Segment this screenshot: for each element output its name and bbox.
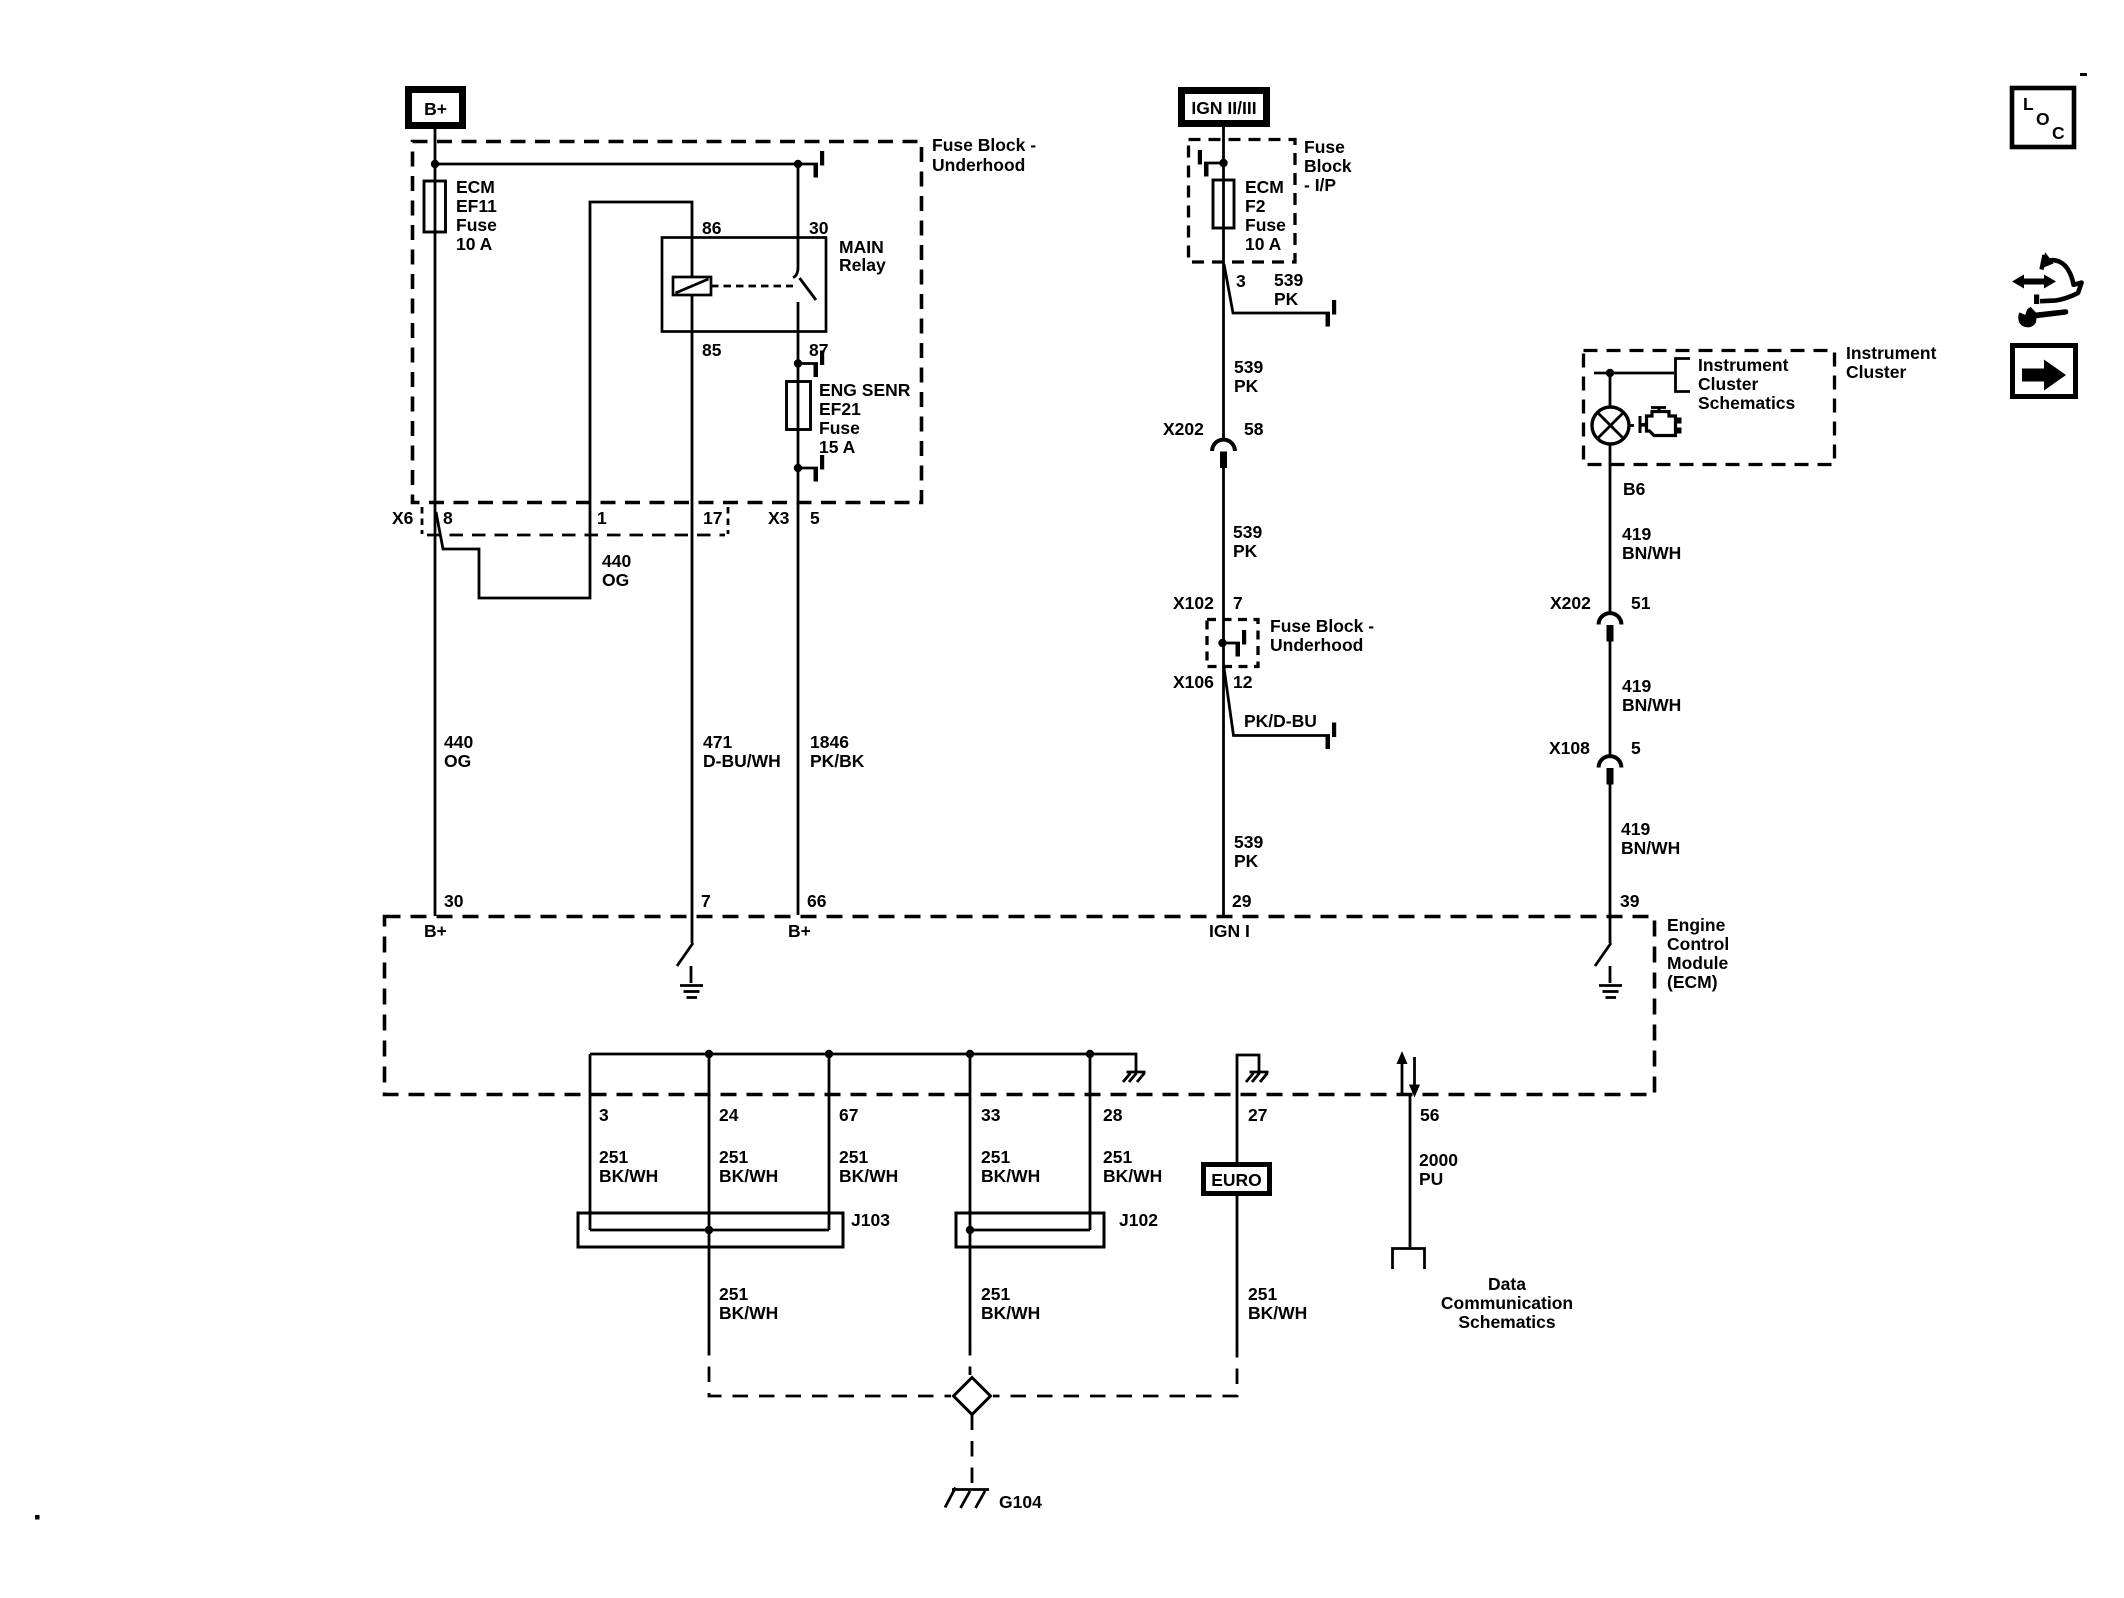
wire 419 BN/WH to X108	[1609, 642, 1612, 757]
svg-text:251: 251	[719, 1284, 748, 1304]
clip at 539 PK branch end	[1326, 300, 1337, 327]
wire label 419 BN/WH (upper)	[1622, 524, 1681, 563]
engine control module ECM dashed box	[385, 917, 1655, 1095]
svg-text:539: 539	[1233, 522, 1262, 542]
dashed ground distribution wire from J103	[709, 1340, 951, 1396]
svg-text:Module: Module	[1667, 953, 1729, 973]
svg-text:BN/WH: BN/WH	[1621, 838, 1680, 858]
svg-text:30: 30	[809, 218, 829, 238]
ECM internal ground bus	[590, 1054, 1136, 1071]
fuse block underhood inline label	[1270, 616, 1374, 655]
wire label 440 OG (lower)	[444, 732, 473, 771]
wire EURO down 251 BK/WH	[1236, 1194, 1239, 1342]
wire label 251 BK/WH below EURO	[1248, 1284, 1307, 1323]
instrument cluster schematics label	[1698, 355, 1796, 413]
relay labels	[702, 218, 886, 360]
svg-text:Cluster: Cluster	[1698, 374, 1758, 394]
wire ECM pin 67 to J103	[828, 1054, 831, 1230]
svg-text:24: 24	[719, 1105, 739, 1125]
splice pack J103	[578, 1213, 843, 1247]
connector X6 / X3 pin labels	[392, 508, 820, 528]
power symbol B+	[409, 90, 463, 126]
svg-text:X108: X108	[1549, 738, 1590, 758]
svg-text:Instrument: Instrument	[1698, 355, 1789, 375]
svg-text:39: 39	[1620, 891, 1640, 911]
svg-text:419: 419	[1622, 676, 1651, 696]
svg-text:1: 1	[597, 508, 607, 528]
svg-text:3: 3	[599, 1105, 609, 1125]
wire label 440 OG (upper)	[602, 551, 631, 590]
svg-text:539: 539	[1234, 832, 1263, 852]
svg-text:87: 87	[809, 340, 828, 360]
svg-text:X6: X6	[392, 508, 414, 528]
svg-text:Fuse Block -: Fuse Block -	[932, 135, 1036, 155]
svg-text:440: 440	[602, 551, 631, 571]
diagnostic harness icon	[2012, 252, 2082, 327]
svg-text:56: 56	[1420, 1105, 1440, 1125]
svg-text:L: L	[2023, 94, 2034, 114]
check engine icon	[1639, 408, 1682, 436]
svg-text:BK/WH: BK/WH	[1103, 1166, 1162, 1186]
svg-text:BK/WH: BK/WH	[839, 1166, 898, 1186]
svg-text:BK/WH: BK/WH	[719, 1303, 778, 1323]
svg-text:BN/WH: BN/WH	[1622, 695, 1681, 715]
svg-text:B+: B+	[424, 99, 447, 119]
svg-text:ENG SENR: ENG SENR	[819, 380, 911, 400]
relay 86 coil wire	[691, 238, 694, 278]
svg-text:PK: PK	[1234, 376, 1259, 396]
wire X6 pin 8 jog to relay coil pin 86 via pin 1	[436, 202, 692, 598]
wire top bus to relay pin 30	[435, 163, 818, 166]
stray mark bottom left	[35, 1515, 40, 1520]
dashed wire diamond to G104	[971, 1415, 974, 1487]
svg-text:ECM: ECM	[1245, 177, 1284, 197]
fuse F2	[1213, 180, 1234, 228]
fuse EF11 label	[456, 177, 497, 254]
connector X202 pin 51 labels	[1550, 593, 1651, 613]
wire label 251 BK/WH below J103	[719, 1284, 778, 1323]
junction dot in inline box	[1218, 639, 1226, 647]
fuse block underhood inline dashed box	[1207, 620, 1258, 667]
connector X102 pin 7 labels	[1173, 593, 1243, 613]
relay coil-contact dashed link	[711, 285, 793, 288]
ECM label	[1667, 915, 1729, 992]
wire relay pin 85 down through X6 pin 17 to ECM pin 7 (471 D-BU/WH)	[691, 295, 694, 943]
internal chassis ground at pin 27	[1246, 1072, 1269, 1082]
svg-text:BK/WH: BK/WH	[981, 1166, 1040, 1186]
fuse block I/P label	[1304, 137, 1352, 195]
svg-text:471: 471	[703, 732, 732, 752]
junction dot above lamp	[1606, 369, 1614, 377]
svg-text:33: 33	[981, 1105, 1001, 1125]
relay switch blade	[800, 278, 817, 300]
power symbol IGN II/III	[1182, 91, 1267, 124]
junction dot below EF21	[794, 464, 802, 472]
svg-text:PK: PK	[1234, 851, 1259, 871]
svg-text:251: 251	[839, 1147, 868, 1167]
wire label 539 PK (above X102)	[1233, 522, 1262, 561]
wire relay pin 87 down through X3 pin 5 to ECM pin 66 (1846 PK/BK)	[797, 302, 800, 915]
svg-text:Fuse: Fuse	[819, 418, 860, 438]
svg-text:Communication: Communication	[1441, 1293, 1573, 1313]
svg-text:Block: Block	[1304, 156, 1352, 176]
svg-text:X202: X202	[1550, 593, 1591, 613]
svg-text:17: 17	[703, 508, 722, 528]
junction dot at B+	[431, 160, 439, 168]
connector X202 pin 58 labels	[1163, 419, 1264, 439]
wire stub and clip at 87	[798, 362, 818, 365]
svg-text:67: 67	[839, 1105, 858, 1125]
clip at PK/D-BU branch end	[1326, 723, 1337, 750]
wire label 419 BN/WH (middle)	[1622, 676, 1681, 715]
in-line connector X202-51	[1599, 613, 1622, 641]
svg-text:IGN I: IGN I	[1209, 921, 1250, 941]
svg-text:5: 5	[1631, 738, 1641, 758]
svg-text:EF21: EF21	[819, 399, 861, 419]
wire through fuse block underhood inline	[1222, 618, 1225, 668]
svg-text:1846: 1846	[810, 732, 849, 752]
svg-text:F2: F2	[1245, 196, 1266, 216]
svg-text:PK: PK	[1233, 541, 1258, 561]
in-line connector X108-5	[1599, 756, 1622, 784]
data communication schematics label	[1441, 1274, 1573, 1332]
svg-text:Data: Data	[1488, 1274, 1526, 1294]
svg-text:J102: J102	[1119, 1210, 1158, 1230]
wire 539 PK to X102	[1222, 468, 1225, 618]
svg-text:419: 419	[1621, 819, 1650, 839]
wire labels 251 BK/WH row	[599, 1147, 1162, 1186]
wire J102 output 251 BK/WH	[969, 1230, 972, 1340]
svg-text:X202: X202	[1163, 419, 1204, 439]
svg-text:66: 66	[807, 891, 827, 911]
indicator lamp MIL	[1592, 407, 1634, 444]
svg-text:58: 58	[1244, 419, 1264, 439]
wire label 1846 PK/BK	[810, 732, 865, 771]
svg-text:- I/P: - I/P	[1304, 175, 1336, 195]
splice pack J102	[956, 1213, 1104, 1247]
wire ECM pin 27 to EURO	[1236, 1096, 1239, 1162]
in-line connector X202-58	[1212, 440, 1235, 468]
ECM internal ground bracket at pin 27	[1237, 1055, 1259, 1096]
svg-text:Fuse: Fuse	[1245, 215, 1286, 235]
fuse F2 label	[1245, 177, 1286, 254]
reference bracket instrument cluster schematics	[1676, 359, 1691, 392]
svg-text:7: 7	[1233, 593, 1243, 613]
wire branch 539 PK off-page	[1224, 264, 1330, 313]
svg-text:539: 539	[1234, 357, 1263, 377]
ECM pin number labels top	[444, 891, 1640, 911]
svg-text:Fuse Block -: Fuse Block -	[1270, 616, 1374, 636]
ECM internal net labels	[424, 921, 1250, 941]
svg-text:5: 5	[810, 508, 820, 528]
dashed ground distribution wire from EURO	[993, 1342, 1237, 1396]
wire label 539 PK (above pin 29)	[1234, 832, 1263, 871]
wire IGN II/III feed down to ECM pin 29 (539 PK)	[1222, 127, 1225, 439]
svg-text:27: 27	[1248, 1105, 1267, 1125]
svg-text:PK/D-BU: PK/D-BU	[1244, 711, 1317, 731]
instrument cluster dashed box	[1584, 351, 1835, 465]
svg-text:BN/WH: BN/WH	[1622, 543, 1681, 563]
svg-text:251: 251	[719, 1147, 748, 1167]
svg-text:OG: OG	[444, 751, 471, 771]
svg-text:85: 85	[702, 340, 722, 360]
svg-text:Fuse: Fuse	[456, 215, 497, 235]
wire stub and clip in inline box	[1223, 642, 1241, 645]
svg-text:251: 251	[599, 1147, 628, 1167]
svg-text:251: 251	[981, 1147, 1010, 1167]
fuse block underhood dashed box	[413, 142, 922, 503]
svg-text:28: 28	[1103, 1105, 1123, 1125]
junction dot at relay 30 branch	[794, 160, 802, 168]
ECM internal data arrows at pin 56	[1397, 1051, 1421, 1098]
svg-text:MAIN: MAIN	[839, 237, 884, 257]
connector X6 boundary marks	[422, 507, 728, 535]
wire relay pin 30 into switch pivot	[793, 164, 798, 278]
svg-text:Control: Control	[1667, 934, 1729, 954]
junction dot at 87	[794, 359, 802, 367]
svg-text:251: 251	[981, 1284, 1010, 1304]
svg-text:C: C	[2052, 123, 2065, 143]
svg-text:X3: X3	[768, 508, 790, 528]
instrument cluster internal wire	[1594, 372, 1674, 375]
svg-text:B+: B+	[424, 921, 447, 941]
wire branch PK/D-BU off-page	[1224, 668, 1330, 736]
wire stub and clip in fuse block I/P	[1204, 162, 1224, 165]
svg-text:251: 251	[1103, 1147, 1132, 1167]
svg-text:ECM: ECM	[456, 177, 495, 197]
svg-text:12: 12	[1233, 672, 1253, 692]
svg-text:B6: B6	[1623, 479, 1646, 499]
svg-text:30: 30	[444, 891, 464, 911]
ground G104	[945, 1488, 989, 1509]
svg-text:IGN II/III: IGN II/III	[1191, 98, 1256, 118]
svg-text:440: 440	[444, 732, 473, 752]
wire lamp down B6 419 BN/WH	[1609, 444, 1612, 613]
svg-text:EF11: EF11	[456, 196, 497, 216]
fuse block I/P dashed box	[1189, 140, 1296, 263]
wire ECM pin 24 to J103	[708, 1054, 711, 1230]
wire ECM pin 33 to J102	[969, 1054, 972, 1230]
svg-text:419: 419	[1622, 524, 1651, 544]
bus junction dots	[705, 1050, 1094, 1058]
wire label 539 PK (branch)	[1274, 270, 1303, 309]
legend LOC box	[2012, 88, 2074, 147]
svg-text:Relay: Relay	[839, 255, 886, 275]
svg-text:15 A: 15 A	[819, 437, 856, 457]
svg-text:539: 539	[1274, 270, 1303, 290]
svg-text:BK/WH: BK/WH	[981, 1303, 1040, 1323]
ECM bottom pin number labels	[599, 1105, 1440, 1125]
wire ECM pin 3 to J103	[589, 1054, 592, 1230]
connector EURO	[1204, 1165, 1270, 1194]
wire stub and clip below EF21	[798, 467, 818, 470]
legend forward arrow box	[2013, 346, 2076, 397]
svg-text:10 A: 10 A	[1245, 234, 1282, 254]
dashed ground distribution wire from J102	[969, 1340, 972, 1375]
svg-text:D-BU/WH: D-BU/WH	[703, 751, 781, 771]
wire B+ feed down to ECM pin 30 (440 OG)	[434, 129, 437, 916]
wire label 539 PK (above X202)	[1234, 357, 1263, 396]
internal chassis ground at bus end	[1123, 1072, 1146, 1082]
junction dot in fuse block I/P	[1219, 159, 1227, 167]
wire continuation clip top right	[814, 151, 825, 178]
svg-text:BK/WH: BK/WH	[719, 1166, 778, 1186]
svg-text:7: 7	[701, 891, 711, 911]
svg-text:PK: PK	[1274, 289, 1299, 309]
connector X108 pin 5 labels	[1549, 738, 1641, 758]
svg-text:29: 29	[1232, 891, 1252, 911]
wire 539 PK down to ECM pin 29	[1222, 668, 1225, 915]
wire label 419 BN/WH (lower)	[1621, 819, 1680, 858]
svg-text:3: 3	[1236, 271, 1246, 291]
svg-text:Cluster: Cluster	[1846, 362, 1906, 382]
wire label 2000 PU	[1419, 1150, 1458, 1189]
svg-text:BK/WH: BK/WH	[599, 1166, 658, 1186]
svg-text:J103: J103	[851, 1210, 890, 1230]
svg-text:X106: X106	[1173, 672, 1214, 692]
ECM internal switch to ground at pin 39	[1595, 915, 1622, 998]
svg-text:O: O	[2036, 109, 2050, 129]
svg-text:Engine: Engine	[1667, 915, 1726, 935]
off-page bracket data communication	[1393, 1249, 1425, 1270]
fuse ENG SENR EF21	[787, 382, 811, 430]
svg-text:B+: B+	[788, 921, 811, 941]
svg-text:X102: X102	[1173, 593, 1214, 613]
fuse EF21 label	[819, 380, 911, 457]
svg-text:Fuse: Fuse	[1304, 137, 1345, 157]
svg-text:PU: PU	[1419, 1169, 1443, 1189]
connector X106 pin 12 labels	[1173, 672, 1253, 692]
svg-text:BK/WH: BK/WH	[1248, 1303, 1307, 1323]
page mark	[2080, 73, 2087, 76]
wire ECM pin 56 down	[1409, 1096, 1412, 1247]
svg-text:G104: G104	[999, 1492, 1042, 1512]
instrument cluster label	[1846, 343, 1937, 382]
fuse block underhood label	[932, 135, 1036, 175]
svg-text:2000: 2000	[1419, 1150, 1458, 1170]
svg-text:251: 251	[1248, 1284, 1277, 1304]
svg-text:8: 8	[443, 508, 453, 528]
wire 419 BN/WH to ECM pin 39	[1609, 785, 1612, 916]
svg-text:Underhood: Underhood	[1270, 635, 1363, 655]
svg-text:86: 86	[702, 218, 722, 238]
svg-text:Instrument: Instrument	[1846, 343, 1937, 363]
wire to indicator lamp	[1609, 373, 1612, 407]
relay MAIN box	[662, 238, 826, 332]
wire J103 output 251 BK/WH	[708, 1230, 711, 1340]
svg-text:Schematics: Schematics	[1698, 393, 1796, 413]
svg-text:(ECM): (ECM)	[1667, 972, 1718, 992]
svg-text:EURO: EURO	[1211, 1170, 1262, 1190]
svg-text:OG: OG	[602, 570, 629, 590]
wire ECM pin 28 to J102	[1089, 1054, 1092, 1230]
fuse EF11	[424, 181, 446, 232]
relay coil	[673, 277, 711, 295]
svg-text:10 A: 10 A	[456, 234, 493, 254]
svg-text:PK/BK: PK/BK	[810, 751, 865, 771]
ground splice diamond G104 node	[954, 1378, 991, 1415]
wire label 251 BK/WH below J102	[981, 1284, 1040, 1323]
svg-text:Underhood: Underhood	[932, 155, 1025, 175]
svg-text:51: 51	[1631, 593, 1651, 613]
ECM internal switch to ground at pin 7	[677, 943, 703, 998]
wire label 471 D-BU/WH	[703, 732, 781, 771]
svg-text:Schematics: Schematics	[1458, 1312, 1556, 1332]
